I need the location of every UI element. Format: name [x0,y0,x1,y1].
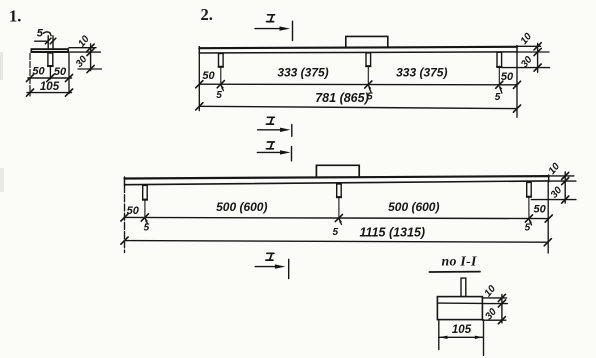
section right vertical dim line [501,294,503,323]
item1 flange top ext right [69,47,96,49]
tick at stem right [50,38,56,44]
tick [47,74,54,81]
section bottom ext right [482,319,505,321]
beam3 flange bottom ext right [549,180,576,182]
section marker I (top of beam 2) [255,15,293,41]
svg-text:50: 50 [533,204,546,216]
svg-text:5: 5 [37,28,44,40]
svg-text:10: 10 [482,283,498,299]
beam2 leg ext lines down [220,67,222,84]
beam2 dim line 50/333/333/50 [199,83,517,86]
item1 dim line 105 [27,92,72,94]
ticks dim1 [196,81,203,88]
svg-text:10: 10 [519,31,535,47]
beam3 leg-bottom ext right [531,199,576,201]
ticks dim1 [121,214,128,221]
beam3 dim line 50/500/500/50 [125,217,549,218]
leg width 5 left [216,84,224,101]
leg width 5 right beam3 [525,218,532,233]
beam3 top block [316,165,359,177]
beam2 right ext line [516,52,518,117]
svg-text:30: 30 [549,185,565,201]
tick 10 top [87,44,94,51]
section bottom left ext [438,320,440,350]
item1 stem (anchor leg) [48,53,53,66]
tick [121,237,128,244]
item1 stem-bottom level line right [78,68,102,70]
tick [65,74,72,81]
leader line for 5 [35,40,47,42]
tick [498,294,505,301]
beam2 left ext line [198,54,200,111]
leg width 5 middle beam3 [333,218,342,238]
tick [534,48,541,55]
tick [498,317,505,324]
scan smudge left edge upper [0,52,3,80]
beam3 leg ext lines down [144,200,146,217]
tick 30 bottom [87,65,94,72]
svg-text:5: 5 [525,222,531,233]
svg-text:781 (865): 781 (865) [315,91,369,105]
svg-text:1.: 1. [9,6,21,25]
svg-text:105: 105 [40,81,60,93]
title underline [429,271,480,273]
tick at stem left [45,38,51,44]
beam3 flange [125,175,549,186]
leg width 5 right [495,85,503,103]
section marker I (bottom of beam 3) [255,253,289,278]
beam3 leg middle [337,184,342,198]
beam3 right ext line [547,182,549,253]
tick [513,105,520,112]
stem extension lines up [47,36,49,48]
beam3 left ext line [124,186,126,253]
leg width 5 left beam3 [144,217,150,233]
svg-text:333 (375): 333 (375) [396,66,447,80]
svg-text:1115 (1315): 1115 (1315) [360,226,426,240]
item1 dim line 50/50 [28,77,72,79]
svg-text:105: 105 [452,324,472,336]
section pin [461,278,466,297]
item1 mid ext line [49,66,51,79]
tick [562,172,569,179]
section inner flange line [437,302,482,304]
svg-text:50: 50 [202,70,215,82]
beam2 top block [346,36,388,47]
tick [562,178,569,185]
beam2 leg left [219,54,224,68]
svg-text:500 (600): 500 (600) [388,200,439,214]
beam3 right vertical dim line [564,172,566,203]
tick 10 bottom [87,48,94,55]
leg width 5 middle [367,85,373,103]
item1 flange bottom ext right [69,51,100,53]
scan smudge left edge lower [0,168,4,192]
svg-text:50: 50 [127,205,140,217]
tick [65,89,72,96]
beam3 leg left [143,185,148,200]
tick [544,239,551,246]
item1 right vertical dim line [90,44,92,71]
section marker I (top of beam 3) [257,142,291,161]
section marker I (bottom of beam 2) [258,117,292,136]
svg-text:50: 50 [54,66,67,78]
beam2 flange top ext right [517,45,541,47]
label 5 with leader (stem width) [37,28,51,40]
tick [498,300,505,307]
beam2 leg right [497,52,502,67]
svg-text:50: 50 [32,65,45,77]
beam2 dim line 781 [199,106,517,108]
tick [26,74,33,81]
item1 flange (top slab bar) [31,48,70,53]
svg-text:по I-I: по I-I [442,254,477,269]
tick [26,89,33,96]
svg-text:5: 5 [216,90,222,101]
section bottom right ext [483,320,485,356]
beam2 right vertical dim line [537,44,539,73]
svg-text:5: 5 [144,223,150,234]
svg-text:500 (600): 500 (600) [216,200,267,214]
tick [534,43,541,50]
section dim line 105 [439,336,484,339]
tick [562,196,569,203]
section top ext right [482,297,506,299]
item1 left ext line [29,54,31,97]
beam2 leg middle [366,53,371,67]
item1 right ext line [68,54,70,94]
beam3 leg right [527,182,532,197]
beam2 flange [199,46,517,54]
beam3 flange top ext right [549,175,574,177]
tick [196,103,203,110]
svg-text:50: 50 [501,71,514,83]
section body [437,297,482,320]
beam3 dim line 1115 [125,241,548,243]
svg-text:2.: 2. [201,5,213,24]
beam2 flange bottom ext right [517,51,549,53]
svg-text:5: 5 [333,227,339,238]
svg-text:333 (375): 333 (375) [277,66,328,80]
section inner ext right [482,303,507,305]
tick [534,64,541,71]
beam2 leg-bottom ext right [502,67,550,69]
svg-text:5: 5 [495,92,501,103]
